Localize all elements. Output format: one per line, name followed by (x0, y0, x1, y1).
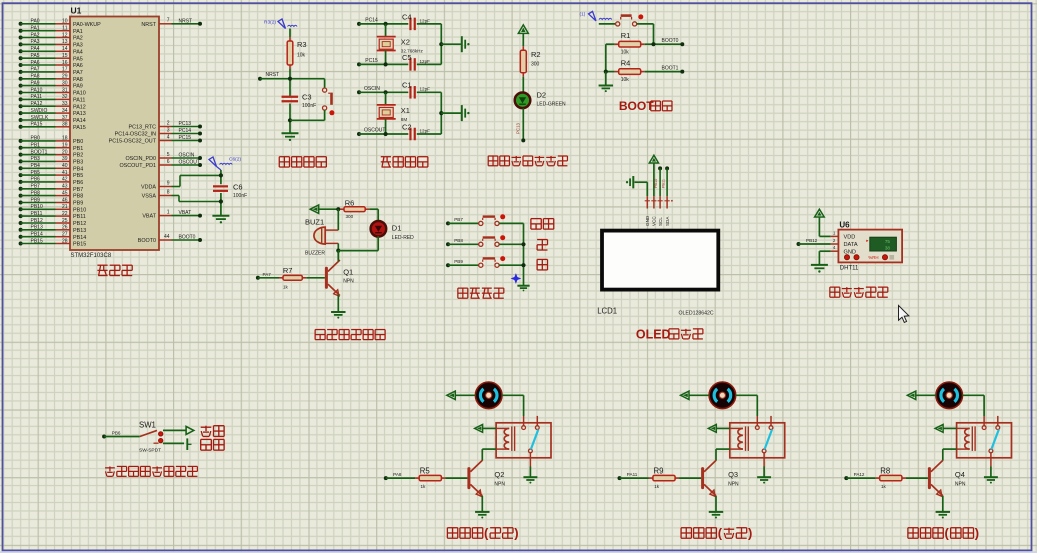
power arrow (motor Q4) (907, 391, 936, 399)
U1 pin PB4 (pin 40) wire PB4 (19, 163, 84, 172)
capacitor C4 12pF (402, 12, 430, 30)
caption 设置 (531, 219, 554, 230)
svg-text:C1: C1 (402, 81, 412, 90)
svg-text:PA10: PA10 (73, 91, 86, 97)
U1 pin VSSA (pin 8) wire to C6 ground (142, 189, 221, 201)
caption 加 (537, 240, 547, 251)
svg-text:PB1: PB1 (73, 146, 83, 152)
svg-text:VSSA: VSSA (142, 194, 157, 200)
svg-text:PC13_RTC: PC13_RTC (129, 125, 157, 131)
svg-text:D2: D2 (537, 91, 547, 100)
svg-text:U6: U6 (839, 220, 850, 229)
ground (DHT11) (811, 265, 828, 273)
svg-text:PB14: PB14 (31, 232, 43, 238)
svg-text:PB7: PB7 (454, 217, 463, 222)
svg-text:PA14: PA14 (73, 118, 86, 124)
svg-text:BOOT0: BOOT0 (138, 238, 156, 244)
resistor R9 1k (618, 466, 702, 489)
motor (relay heating 继电器(加热)) (475, 382, 502, 409)
svg-text:%RH: %RH (868, 255, 878, 260)
U1 pin PB11 (pin 22) wire PB11 (19, 211, 86, 220)
svg-text:PB2: PB2 (73, 153, 83, 159)
svg-text:PC14-OSC32_IN: PC14-OSC32_IN (115, 132, 156, 138)
svg-text:6: 6 (167, 159, 170, 165)
wire node PB12 to DATA (797, 238, 831, 246)
relay switch lever (cyan) (531, 430, 538, 450)
svg-text:BOOT0: BOOT0 (179, 235, 196, 241)
svg-text:1k: 1k (654, 484, 660, 489)
caption 薄膜压力检测模块 (105, 466, 197, 476)
svg-text:10k: 10k (621, 50, 630, 56)
resistor R4 10k (606, 44, 645, 83)
svg-text:PB8: PB8 (31, 190, 41, 196)
wire keys common rail (521, 223, 525, 285)
svg-text:PA12: PA12 (854, 472, 865, 477)
svg-text:PA9: PA9 (31, 80, 40, 86)
blue junction diamond marker (511, 273, 522, 284)
svg-text:45: 45 (62, 190, 68, 196)
resistor R2 300 (520, 46, 540, 76)
svg-text:Q1: Q1 (343, 267, 353, 276)
microcontroller U1 STM32F103C8 body (70, 6, 159, 260)
svg-text:12pF: 12pF (420, 128, 431, 133)
U1 pin PB2 (pin 20) wire BOOT1 (19, 149, 84, 158)
svg-text:1k: 1k (283, 284, 289, 289)
resistor R1 10k (606, 31, 645, 56)
U1 pin PB8 (pin 45) wire PB8 (19, 190, 84, 199)
svg-text:PA1: PA1 (73, 29, 83, 35)
svg-text:PA4: PA4 (73, 49, 83, 55)
relay switch lever (cyan) (765, 430, 772, 450)
svg-text:BOOT1: BOOT1 (31, 149, 48, 155)
U1 pin PA3 (pin 13) wire PA3 (19, 39, 83, 48)
svg-text:12pF: 12pF (420, 87, 431, 92)
svg-text:PA2: PA2 (73, 36, 83, 42)
motor (relay cooling 继电器(散热)) (709, 382, 736, 409)
push button (BOOT) (599, 14, 654, 44)
svg-text:OSCIN: OSCIN (364, 86, 380, 92)
wire node OSCIN (357, 86, 441, 95)
wire D2 to PC13 (516, 108, 526, 142)
svg-text:BOOT: BOOT (619, 99, 654, 113)
U1 pin PA1 (pin 11) wire PA1 (19, 26, 83, 35)
wire node BOOT1 (645, 65, 685, 73)
svg-text:C5: C5 (402, 53, 412, 62)
wire right rail (X1) to ground (439, 92, 461, 134)
svg-text:VBAT: VBAT (142, 214, 156, 220)
svg-text:17: 17 (62, 67, 68, 73)
svg-text:VCC: VCC (652, 216, 657, 226)
svg-text:PA10: PA10 (31, 87, 43, 93)
wire node NRST (258, 69, 325, 96)
svg-text:PB12: PB12 (806, 238, 818, 243)
svg-text:PA12: PA12 (31, 101, 43, 107)
wire R2 to D2 (522, 77, 524, 93)
ground below C6 (212, 216, 229, 224)
svg-text:PB6: PB6 (31, 177, 41, 183)
U1 pin PA13 (pin 34) wire SWDIO (19, 108, 86, 117)
svg-text:31: 31 (62, 87, 68, 93)
U1 pin NRST (pin 7) wire NRST (141, 18, 202, 28)
svg-text:OSCOUT: OSCOUT (179, 160, 200, 166)
svg-text:PA5: PA5 (31, 53, 40, 59)
U1 pin PA14 (pin 37) wire SWCLK (19, 115, 86, 124)
svg-text:16: 16 (62, 60, 68, 66)
ground (Q3 emitter) (709, 512, 723, 519)
svg-text:PB8: PB8 (73, 194, 83, 200)
svg-text:21: 21 (62, 204, 68, 210)
svg-text:PB6: PB6 (73, 180, 83, 186)
U1 pin BOOT0 (pin 44) wire BOOT0 (138, 234, 202, 244)
svg-text:PB7: PB7 (31, 184, 41, 190)
svg-text:BOOT0: BOOT0 (662, 38, 679, 44)
wire Q1 collector (337, 251, 339, 262)
svg-text:VDD: VDD (844, 235, 856, 241)
power arrow (OLED VCC) (649, 155, 658, 196)
push button (PB7) (446, 214, 524, 225)
wire coil bottom to Q2 collector (482, 449, 496, 460)
svg-text:300: 300 (346, 214, 354, 219)
wire buzzer bottom / D1 bottom node (336, 236, 378, 259)
svg-text:PA15: PA15 (31, 122, 43, 128)
svg-text:PA7: PA7 (73, 70, 83, 76)
svg-text:C6(2): C6(2) (229, 157, 241, 163)
svg-text:): ) (514, 526, 518, 541)
svg-text:33: 33 (62, 101, 68, 107)
svg-text:PA0: PA0 (31, 19, 40, 25)
U1 pin PB5 (pin 41) wire PB5 (19, 170, 84, 179)
U1 pin PB6 (pin 42) wire PB6 (19, 177, 84, 186)
U1 pin PC13_RTC (pin 2) wire PC13 (129, 120, 202, 130)
svg-text:PC15: PC15 (365, 58, 378, 64)
U1 pin PB0 (pin 18) wire PB0 (19, 136, 84, 145)
svg-text:29: 29 (62, 74, 68, 80)
U1 pin PB13 (pin 26) wire PB13 (19, 225, 87, 234)
svg-text:VDDA: VDDA (141, 185, 156, 191)
svg-text:43: 43 (62, 184, 68, 190)
svg-text:X1: X1 (401, 106, 410, 115)
svg-text:PA7: PA7 (31, 67, 40, 73)
svg-text:PB10: PB10 (31, 204, 43, 210)
svg-text:20: 20 (62, 149, 68, 155)
wire node PC14 (357, 17, 441, 26)
svg-text:PA8: PA8 (73, 77, 83, 83)
svg-text:D1: D1 (392, 223, 402, 232)
svg-text:5: 5 (167, 152, 170, 158)
svg-text:28: 28 (62, 238, 68, 244)
caption relay heating 继电器(加热) (447, 526, 518, 541)
svg-text:PB12: PB12 (73, 221, 86, 227)
svg-text:R1: R1 (621, 31, 631, 40)
caption relay cooling 继电器(散热) (681, 526, 752, 541)
ground (X1 rail) (462, 105, 470, 121)
svg-text:U1: U1 (71, 6, 82, 16)
caption BOOT电路 (619, 99, 672, 113)
ground (BOOT circuit) (599, 70, 613, 93)
svg-text:OSCOUT: OSCOUT (364, 128, 385, 134)
svg-text:NRST: NRST (141, 22, 156, 28)
ground (OLED GND) (626, 176, 647, 196)
svg-text:32: 32 (62, 94, 68, 100)
U1 pin PA2 (pin 12) wire PA2 (19, 32, 83, 41)
resistor R6 300 (340, 198, 369, 219)
wire C6 top node junction (219, 170, 223, 184)
svg-text:NRST: NRST (179, 18, 193, 24)
relay RL (Q4) (957, 416, 1012, 467)
buzzer BUZ1 (305, 217, 338, 256)
svg-text:PB0: PB0 (31, 136, 41, 142)
svg-text:(: ( (945, 526, 950, 541)
svg-text:LED-RED: LED-RED (392, 235, 414, 241)
resistor R3 10k (287, 29, 306, 70)
wire power to buzzer top pin (337, 209, 339, 230)
svg-text:8: 8 (167, 189, 170, 195)
wire coil bottom to Q3 collector (716, 449, 730, 460)
svg-text:PB7: PB7 (73, 187, 83, 193)
wire C6 bottom to ground (219, 193, 223, 216)
svg-text:DATA: DATA (844, 242, 858, 248)
svg-text:PB8: PB8 (454, 238, 463, 243)
svg-text:Q2: Q2 (494, 470, 504, 479)
push button (PB9) (446, 256, 524, 267)
power arrow (DHT11 VDD) (815, 209, 831, 236)
svg-text:OSCIN_PD0: OSCIN_PD0 (125, 156, 156, 162)
svg-text:R7: R7 (283, 266, 293, 275)
svg-text:SCL: SCL (658, 217, 663, 226)
U1 pin OSCOUT_PD1 (pin 6) wire OSCOUT (119, 159, 202, 169)
svg-text:NPN: NPN (494, 481, 505, 487)
push button (PB8) (446, 235, 524, 246)
U1 pin VDDA (pin 9) wire to C6 (141, 175, 221, 190)
push button (reset) (290, 79, 334, 121)
svg-text:PB9: PB9 (454, 259, 463, 264)
svg-text:13: 13 (62, 39, 68, 45)
wire motor to relay pin (736, 395, 758, 416)
svg-text:300: 300 (531, 61, 540, 67)
U1 pin PA10 (pin 31) wire PA10 (19, 87, 86, 96)
svg-text:15: 15 (62, 53, 68, 59)
svg-text:NPN: NPN (728, 481, 739, 487)
svg-text:44: 44 (164, 234, 170, 240)
svg-text:100nF: 100nF (302, 103, 316, 109)
power flag R3(2) blue marker (264, 19, 297, 29)
svg-text:C4: C4 (402, 12, 412, 21)
svg-text:PA11: PA11 (627, 472, 638, 477)
caption 无人 (201, 426, 224, 437)
svg-text:25: 25 (62, 218, 68, 224)
svg-text:(1): (1) (580, 12, 586, 18)
mouse cursor (899, 306, 909, 323)
svg-text:38: 38 (885, 246, 891, 251)
terminal bar (有人) (187, 438, 191, 450)
svg-text:PB11: PB11 (31, 211, 43, 217)
svg-text:PB6: PB6 (112, 431, 121, 436)
caption 声光报警电路 (315, 330, 385, 340)
svg-text:R4: R4 (621, 59, 631, 68)
svg-text:PB1: PB1 (31, 143, 41, 149)
svg-text:10: 10 (62, 19, 68, 25)
U1 pin PA8 (pin 29) wire PA8 (19, 74, 83, 83)
wire upper throw to 无人 terminal (163, 429, 186, 431)
svg-text:11: 11 (62, 26, 67, 32)
svg-text:R2: R2 (531, 50, 541, 59)
caption relay drying 继电器(风干) (908, 526, 979, 541)
power arrow (motor Q2) (447, 391, 476, 399)
svg-text:3: 3 (167, 127, 170, 133)
transistor Q2 NPN (467, 460, 505, 496)
svg-text:PB4: PB4 (31, 163, 41, 169)
capacitor C2 12pF (402, 122, 430, 140)
svg-text:GND: GND (844, 249, 856, 255)
svg-text:4: 4 (167, 134, 170, 140)
svg-text:PC13: PC13 (179, 121, 192, 127)
svg-text:PB0: PB0 (73, 139, 83, 145)
svg-text:GND: GND (645, 215, 650, 226)
svg-text:34: 34 (62, 108, 68, 114)
svg-text:27: 27 (62, 232, 68, 238)
svg-text:LCD1: LCD1 (597, 307, 617, 316)
svg-text:19: 19 (62, 143, 68, 149)
svg-text:PC14: PC14 (179, 128, 192, 134)
wire SCL stub (654, 166, 662, 196)
U1 pin PC14-OSC32_IN (pin 3) wire PC14 (115, 127, 202, 137)
caption 晶振电路 (381, 157, 428, 167)
svg-text:PA4: PA4 (31, 46, 40, 52)
caption 独立按键 (458, 288, 504, 298)
svg-text:PA5: PA5 (73, 56, 83, 62)
svg-text:R3: R3 (297, 40, 307, 49)
resistor R7 1k (256, 266, 325, 289)
caption 主芯片 (97, 265, 132, 275)
svg-text:41: 41 (62, 170, 68, 176)
svg-text:PA6: PA6 (73, 63, 83, 69)
svg-text:NPN: NPN (343, 278, 354, 284)
ground (Q2 emitter) (475, 512, 489, 519)
U1 pin PB10 (pin 21) wire PB10 (19, 204, 87, 213)
svg-text:1: 1 (167, 209, 170, 215)
U1 pin PB1 (pin 19) wire PB1 (19, 143, 84, 152)
ground (reset circuit) (282, 133, 299, 141)
svg-text:SW1: SW1 (139, 420, 156, 429)
caption 复位电路 (279, 157, 326, 167)
caption 温湿度模块 (830, 287, 888, 297)
wire right rail (X2) to ground (439, 24, 461, 65)
power arrow (motor Q3) (681, 391, 710, 399)
svg-text:PA11: PA11 (31, 94, 43, 100)
svg-text:SW-SPDT: SW-SPDT (139, 448, 161, 454)
U1 pin PA15 (pin 38) wire PA15 (19, 122, 86, 131)
motor (relay drying 继电器(风干)) (936, 382, 963, 409)
resistor R8 1k (844, 466, 928, 489)
svg-text:42: 42 (62, 177, 68, 183)
svg-text:10k: 10k (297, 53, 306, 59)
relay RL (Q3) (730, 416, 785, 467)
svg-text:C2: C2 (402, 122, 412, 131)
capacitor C6 100nF (213, 183, 247, 200)
U1 pin PB9 (pin 46) wire PB9 (19, 197, 84, 206)
relay switch lever (cyan) (991, 430, 998, 450)
capacitor C3 100nF (282, 93, 317, 110)
svg-text:PC15-OSC32_OUT: PC15-OSC32_OUT (109, 139, 157, 145)
svg-text:PB14: PB14 (73, 235, 86, 241)
ground (alarm circuit) (331, 312, 345, 319)
U1 pin PB15 (pin 28) wire PB15 (19, 238, 87, 247)
caption OLED显示屏 (636, 327, 703, 341)
svg-text:OSCIN: OSCIN (179, 153, 195, 159)
ground (relay contact) (523, 467, 537, 484)
svg-text:PB15: PB15 (73, 242, 86, 248)
svg-text:100nF: 100nF (233, 193, 247, 199)
wire GND pin to ground (819, 251, 830, 265)
svg-text:18: 18 (62, 136, 68, 142)
svg-text:X2: X2 (401, 38, 410, 47)
svg-text:PB12: PB12 (31, 218, 43, 224)
wire Q4 emitter to ground (942, 496, 944, 512)
relay RL (Q2) (496, 416, 551, 467)
svg-text:12pF: 12pF (420, 59, 431, 64)
power arrow (indicator) (518, 25, 528, 46)
LED D2 LED-GREEN (515, 91, 566, 109)
caption 程序运行指示灯 (488, 156, 567, 166)
LCD1 pin stubs GND VCC SCL SDA (645, 196, 673, 226)
svg-text:PB4: PB4 (73, 166, 83, 172)
svg-text:OLED: OLED (636, 327, 671, 341)
svg-text:VBAT: VBAT (179, 210, 192, 216)
U1 pin PA6 (pin 16) wire PA6 (19, 60, 83, 69)
ground (X2 rail) (462, 36, 470, 52)
svg-text:26: 26 (62, 225, 68, 231)
svg-text:PB9: PB9 (73, 201, 83, 207)
svg-text:PA12: PA12 (73, 104, 86, 110)
svg-text:1k: 1k (881, 484, 887, 489)
wire lower throw to 有人 terminal (163, 442, 184, 444)
svg-text:C6: C6 (233, 183, 243, 192)
svg-text:DHT11: DHT11 (840, 265, 859, 271)
wire SDA stub (661, 166, 669, 196)
terminal arrow (无人) (186, 426, 194, 434)
wire Q1 emitter to ground (337, 295, 339, 313)
svg-text:PB9: PB9 (31, 197, 41, 203)
svg-text:R6: R6 (345, 198, 355, 207)
wire Q2 emitter to ground (481, 496, 483, 512)
svg-text:PB11: PB11 (73, 214, 86, 220)
ground (keys) (517, 286, 529, 292)
svg-text:OLED128642C: OLED128642C (679, 311, 714, 317)
power arrow (alarm) (310, 205, 340, 213)
svg-text:PB13: PB13 (31, 225, 43, 231)
svg-text:PA11: PA11 (73, 98, 85, 104)
ground (Q4 emitter) (936, 512, 950, 519)
svg-text:9: 9 (167, 180, 170, 186)
svg-text:PB3: PB3 (73, 160, 83, 166)
svg-text:46: 46 (62, 197, 68, 203)
svg-text:39: 39 (62, 156, 68, 162)
ground (relay contact) (984, 467, 998, 484)
svg-text:PA13: PA13 (73, 111, 86, 117)
svg-text:PA2: PA2 (31, 32, 40, 38)
svg-text:): ) (748, 526, 752, 541)
U1 pin PB7 (pin 43) wire PB7 (19, 184, 84, 193)
svg-text:7: 7 (167, 18, 170, 24)
svg-text:PB10: PB10 (73, 207, 86, 213)
svg-text:22: 22 (62, 211, 68, 217)
window bottom strip (0, 551, 1037, 553)
svg-text:PB10: PB10 (654, 179, 658, 188)
svg-text:1k: 1k (421, 484, 427, 489)
switch SW1 SW-SPDT (139, 420, 163, 453)
svg-text:BUZ1: BUZ1 (305, 217, 324, 226)
svg-text:SWCLK: SWCLK (31, 115, 49, 121)
